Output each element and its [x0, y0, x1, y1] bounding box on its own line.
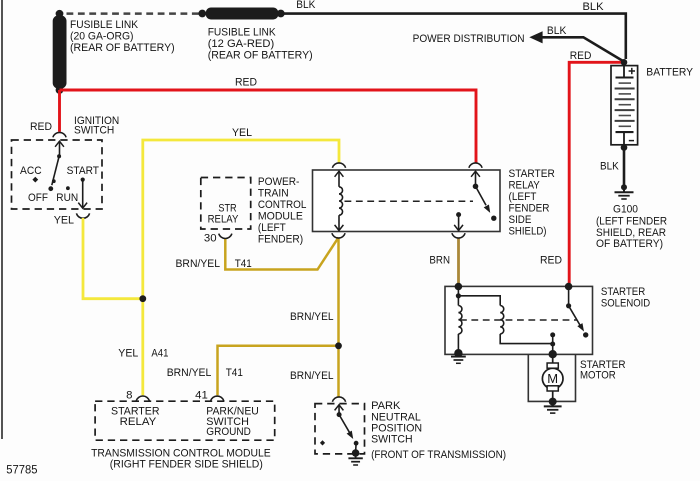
- svg-text:RELAY: RELAY: [208, 214, 239, 226]
- svg-text:57785: 57785: [6, 463, 37, 477]
- svg-text:BRN/YEL: BRN/YEL: [167, 367, 212, 379]
- svg-text:STARTER: STARTER: [509, 168, 555, 180]
- svg-text:RELAY: RELAY: [509, 180, 541, 192]
- svg-text:A41: A41: [151, 348, 168, 360]
- svg-text:(RIGHT FENDER SIDE SHIELD): (RIGHT FENDER SIDE SHIELD): [110, 459, 263, 471]
- svg-text:POWER DISTRIBUTION: POWER DISTRIBUTION: [413, 33, 525, 45]
- svg-text:BLK: BLK: [547, 25, 567, 37]
- svg-text:(12 GA-RED): (12 GA-RED): [208, 38, 275, 50]
- svg-text:FENDER: FENDER: [509, 203, 550, 215]
- svg-text:YEL: YEL: [232, 127, 252, 139]
- svg-text:BRN/YEL: BRN/YEL: [290, 370, 334, 382]
- svg-text:GROUND: GROUND: [206, 426, 251, 438]
- svg-text:(REAR OF BATTERY): (REAR OF BATTERY): [208, 49, 313, 61]
- svg-text:YEL: YEL: [118, 348, 138, 360]
- svg-text:FUSIBLE LINK: FUSIBLE LINK: [208, 26, 276, 38]
- svg-text:CONTROL: CONTROL: [258, 199, 307, 211]
- svg-text:SWITCH: SWITCH: [74, 125, 114, 137]
- svg-text:RELAY: RELAY: [120, 416, 157, 428]
- svg-text:RUN: RUN: [56, 192, 78, 204]
- svg-text:FUSIBLE LINK: FUSIBLE LINK: [70, 19, 138, 31]
- svg-text:RED: RED: [30, 121, 52, 133]
- svg-text:BLK: BLK: [296, 0, 315, 11]
- svg-text:(20 GA-ORG): (20 GA-ORG): [70, 31, 134, 43]
- svg-text:BRN/YEL: BRN/YEL: [176, 258, 221, 270]
- svg-text:ACC: ACC: [20, 165, 42, 177]
- svg-text:(LEFT FENDER: (LEFT FENDER: [596, 216, 667, 228]
- svg-text:START: START: [67, 165, 99, 177]
- svg-text:RED: RED: [570, 50, 592, 62]
- svg-text:T41: T41: [226, 367, 243, 379]
- svg-text:BRN/YEL: BRN/YEL: [290, 311, 334, 323]
- svg-text:M: M: [547, 371, 558, 386]
- svg-text:(REAR OF BATTERY): (REAR OF BATTERY): [70, 42, 175, 54]
- svg-text:POWER-: POWER-: [258, 176, 300, 188]
- svg-text:41: 41: [195, 390, 208, 402]
- svg-text:RED: RED: [235, 77, 257, 89]
- svg-text:BRN: BRN: [429, 255, 450, 267]
- svg-text:(LEFT: (LEFT: [258, 222, 286, 234]
- svg-text:30: 30: [204, 233, 217, 245]
- svg-text:STARTER: STARTER: [601, 286, 645, 298]
- svg-text:FENDER): FENDER): [258, 234, 303, 246]
- svg-text:NEUTRAL: NEUTRAL: [371, 411, 421, 423]
- svg-text:YEL: YEL: [54, 215, 74, 227]
- svg-text:BLK: BLK: [600, 160, 619, 172]
- svg-text:SIDE: SIDE: [509, 214, 532, 226]
- svg-text:T41: T41: [235, 258, 252, 270]
- svg-text:SWITCH: SWITCH: [371, 434, 413, 446]
- svg-text:OFF: OFF: [28, 192, 48, 204]
- svg-text:RED: RED: [540, 255, 562, 267]
- svg-text:MOTOR: MOTOR: [580, 370, 616, 382]
- svg-text:(FRONT OF TRANSMISSION): (FRONT OF TRANSMISSION): [371, 449, 506, 461]
- svg-text:BATTERY: BATTERY: [646, 67, 693, 79]
- svg-text:8: 8: [126, 390, 132, 402]
- svg-text:SHIELD): SHIELD): [509, 226, 547, 238]
- svg-text:OF BATTERY): OF BATTERY): [596, 238, 663, 250]
- svg-text:PARK: PARK: [371, 400, 401, 412]
- svg-text:G100: G100: [613, 203, 638, 215]
- svg-text:BLK: BLK: [583, 1, 604, 13]
- svg-text:(LEFT: (LEFT: [509, 191, 537, 203]
- svg-text:TRAIN: TRAIN: [258, 188, 289, 200]
- svg-text:SOLENOID: SOLENOID: [601, 297, 650, 309]
- svg-text:MODULE: MODULE: [258, 211, 303, 223]
